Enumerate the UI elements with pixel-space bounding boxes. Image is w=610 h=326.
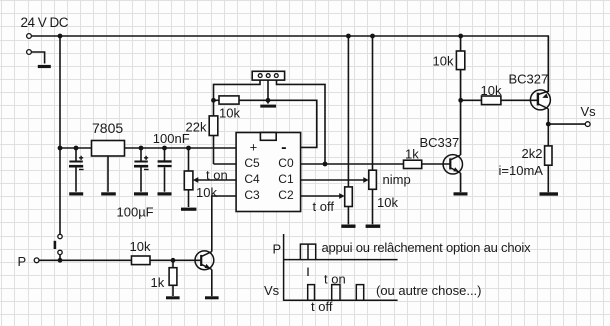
svg-text:t on: t on [206,167,228,182]
svg-text:10k: 10k [377,195,398,210]
svg-text:100nF: 100nF [153,131,190,146]
svg-text:1k: 1k [151,275,165,290]
svg-text:C2: C2 [278,188,294,202]
svg-text:Vs: Vs [581,104,597,119]
svg-text:1k: 1k [405,147,419,162]
svg-text:nimp: nimp [383,172,411,187]
svg-text:P: P [18,254,27,269]
svg-text:10k: 10k [130,239,151,254]
svg-text:24 V DC: 24 V DC [21,15,69,30]
svg-text:10k: 10k [196,185,217,200]
svg-text:10k: 10k [481,83,502,98]
svg-text:i=10mA: i=10mA [499,163,544,178]
svg-text:7805: 7805 [92,120,123,136]
svg-text:BC327: BC327 [509,71,549,86]
svg-text:10k: 10k [433,53,454,68]
svg-text:2k2: 2k2 [522,146,543,161]
svg-text:100µF: 100µF [117,205,154,220]
svg-text:+: + [250,139,258,154]
svg-text:t off: t off [313,199,335,214]
svg-text:(ou autre chose...): (ou autre chose...) [376,283,482,298]
svg-text:P: P [273,242,282,257]
svg-text:10k: 10k [219,106,240,121]
svg-text:t off: t off [311,299,333,314]
svg-text:appui ou relâchement option au: appui ou relâchement option au choix [322,240,532,255]
svg-text:C4: C4 [244,172,260,186]
svg-text:BC337: BC337 [420,135,460,150]
svg-text:22k: 22k [186,120,207,135]
svg-text:C1: C1 [278,172,294,186]
svg-text:C3: C3 [244,188,260,202]
svg-text:C0: C0 [278,156,294,170]
svg-text:Vs: Vs [264,283,280,298]
svg-text:C5: C5 [244,156,260,170]
svg-text:t on: t on [324,271,346,286]
